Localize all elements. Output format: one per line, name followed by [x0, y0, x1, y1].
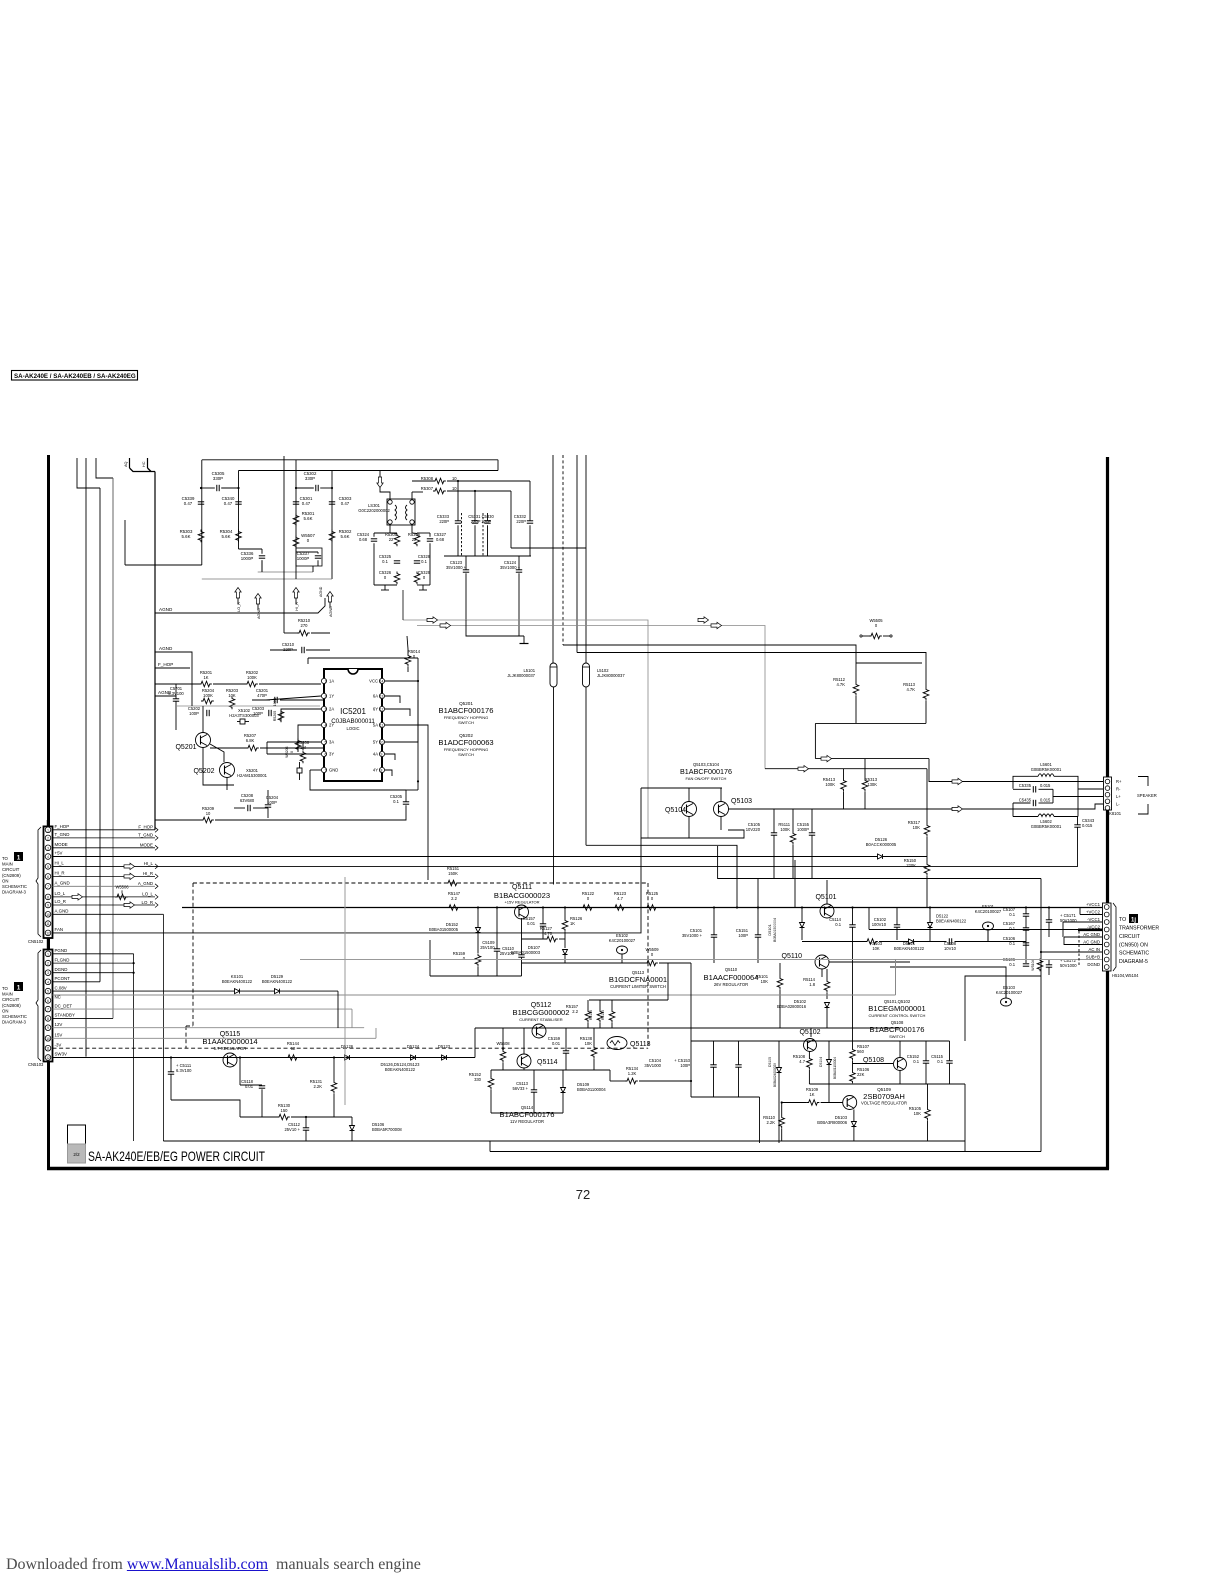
svg-text:LO_L: LO_L	[55, 891, 66, 896]
wire bottom rail C	[964, 1141, 966, 1152]
svg-text:JLJK80000037: JLJK80000037	[597, 673, 625, 678]
svg-text:IC5201: IC5201	[340, 707, 366, 716]
svg-text:5Y: 5Y	[373, 740, 378, 745]
svg-text:6A: 6A	[373, 694, 378, 699]
svg-text:1.8: 1.8	[809, 982, 815, 987]
svg-text:G0BBR5K00001: G0BBR5K00001	[1031, 824, 1062, 829]
svg-text:1: 1	[17, 985, 21, 992]
svg-text:220P: 220P	[283, 647, 293, 652]
svg-text:4.7: 4.7	[799, 1059, 805, 1064]
svg-text:0.68: 0.68	[436, 537, 445, 542]
svg-text:TO: TO	[2, 986, 9, 991]
wire x1041 long vertical	[1040, 879, 1042, 1152]
svg-text:10K: 10K	[914, 1111, 922, 1116]
connector CN5102 pin 6 HI_R	[45, 874, 51, 880]
svg-text:22: 22	[389, 537, 394, 542]
svg-text:PGND: PGND	[55, 948, 68, 953]
svg-text:2Y: 2Y	[329, 723, 334, 728]
net flag HI_R	[293, 588, 299, 599]
svg-text:HI_L: HI_L	[55, 861, 65, 866]
svg-text:SWITCH: SWITCH	[458, 752, 474, 757]
ic pin 6 3Y	[321, 751, 326, 756]
connector CN5103 pin 5 C.08V	[45, 988, 51, 994]
svg-text:12: 12	[46, 931, 50, 935]
svg-text:FAN ON/OFF SWITCH: FAN ON/OFF SWITCH	[686, 776, 727, 781]
svg-text:B1ABCF000176: B1ABCF000176	[500, 1110, 555, 1119]
wire bottom rail D	[490, 1151, 1041, 1153]
svg-text:130K: 130K	[867, 782, 877, 787]
svg-text:Q5101: Q5101	[815, 894, 836, 901]
net arrow LO_R	[124, 902, 135, 908]
connector CN5102 pin 8 LO_L	[45, 894, 51, 900]
ic pin 8 4Y	[379, 767, 384, 772]
svg-text:150K: 150K	[448, 871, 458, 876]
wire conn cap branch	[1025, 908, 1027, 914]
svg-text:100P: 100P	[189, 711, 199, 716]
svg-text:-VCC1: -VCC1	[1087, 917, 1101, 922]
wire dashed box corner	[186, 1025, 193, 1027]
svg-text:5.7 REGULATOR: 5.7 REGULATOR	[214, 1046, 247, 1051]
svg-text:25V100: 25V100	[480, 945, 495, 950]
svg-text:3A: 3A	[329, 740, 334, 745]
svg-text:B1ABCF000176: B1ABCF000176	[870, 1025, 925, 1034]
left bus wire 4	[96, 458, 113, 478]
svg-text:1: 1	[47, 828, 49, 832]
ic pin 1 1A	[321, 678, 326, 683]
wire fltr gnd left	[374, 584, 397, 586]
wire bottom rail A	[163, 1140, 965, 1142]
wire acgnd dashed drop	[1078, 931, 1080, 966]
wire row FAN	[53, 838, 642, 933]
svg-text:F_HOP: F_HOP	[138, 825, 153, 830]
connector CN5102 pin 7 A_GND	[45, 884, 51, 890]
svg-text:10: 10	[206, 811, 211, 816]
svg-text:100P: 100P	[267, 800, 277, 805]
net arrow speaker L	[952, 806, 963, 812]
transistor Q5115	[223, 1053, 237, 1067]
svg-text:3Y: 3Y	[329, 752, 334, 757]
wire fan bottom rail	[718, 846, 1041, 879]
net flag down into LS301	[377, 477, 383, 488]
svg-text:50V1000: 50V1000	[1060, 963, 1077, 968]
ic pin 5 3A	[321, 739, 326, 744]
svg-text:SUB+B: SUB+B	[1086, 955, 1100, 960]
svg-text:JK8101: JK8101	[1107, 811, 1122, 816]
svg-text:10V220: 10V220	[746, 827, 761, 832]
svg-text:1Y: 1Y	[329, 694, 334, 699]
svg-text:Q5113: Q5113	[630, 1041, 651, 1048]
svg-text:CIRCUIT: CIRCUIT	[2, 997, 20, 1002]
svg-text:B0EAKN400122: B0EAKN400122	[385, 1067, 416, 1072]
net arrow mid1a	[427, 617, 438, 623]
wire R- pin link	[1078, 788, 1103, 790]
svg-text:11: 11	[46, 1047, 50, 1051]
svg-text:GND: GND	[329, 768, 338, 773]
svg-text:DIAGRAM-3: DIAGRAM-3	[2, 890, 26, 895]
svg-text:100K: 100K	[780, 827, 790, 832]
svg-text:AC GND: AC GND	[1083, 932, 1100, 937]
svg-text:7: 7	[47, 885, 49, 889]
wire dashed bank 2	[482, 513, 484, 556]
svg-text:D5101: D5101	[767, 924, 772, 935]
svg-text:B1ABCF000176: B1ABCF000176	[439, 706, 494, 715]
svg-text:Q5108: Q5108	[863, 1057, 884, 1064]
svg-text:1: 1	[325, 680, 327, 684]
svg-text:H5104,W5104: H5104,W5104	[1112, 973, 1139, 978]
svg-text:0.015: 0.015	[1040, 783, 1051, 788]
svg-text:3: 3	[325, 708, 327, 712]
wire x691 vertical	[690, 963, 692, 1097]
svg-text:B0BA01100004: B0BA01100004	[577, 1087, 606, 1092]
svg-text:VCC: VCC	[369, 679, 378, 684]
svg-text:CURRENT STABILISER: CURRENT STABILISER	[519, 1017, 563, 1022]
connector JK8101 speaker	[1104, 777, 1112, 810]
wire row HI_R	[53, 875, 156, 877]
net arrow speaker R	[952, 778, 963, 784]
svg-text:B0EAKN400122: B0EAKN400122	[222, 979, 253, 984]
svg-text:12: 12	[46, 1056, 50, 1060]
ic pin 2 1Y	[321, 693, 326, 698]
wire gray 995 extension to sub+b	[53, 994, 896, 996]
resistor bank R5136 R5135	[585, 1010, 591, 1023]
svg-text:HI_R: HI_R	[143, 871, 153, 876]
transistor Q5113 oval	[607, 1037, 627, 1050]
svg-text:SWITCH: SWITCH	[458, 720, 474, 725]
wire join y1084	[809, 1083, 965, 1085]
wire speaker feed L	[865, 804, 1103, 809]
wire ic right pins	[385, 680, 418, 682]
svg-text:1j: 1j	[1131, 918, 1136, 924]
svg-text:2.2: 2.2	[572, 1009, 578, 1014]
svg-text:7: 7	[47, 1008, 49, 1012]
wire ic loop box	[307, 658, 309, 664]
svg-text:0.01: 0.01	[527, 921, 536, 926]
svg-text:CN5103: CN5103	[28, 1062, 44, 1067]
inductor L5602 G0BBR5K00001	[1013, 816, 1038, 818]
wire -vcc1 row	[1063, 921, 1102, 923]
svg-text:B0EAKN400122: B0EAKN400122	[262, 979, 293, 984]
svg-text:B0BA02800016: B0BA02800016	[777, 1004, 807, 1009]
wire q5108 base link	[853, 1063, 894, 1065]
svg-text:0.1: 0.1	[835, 922, 841, 927]
svg-text:1000P: 1000P	[241, 556, 254, 561]
svg-text:100K: 100K	[247, 675, 257, 680]
svg-text:4.7K: 4.7K	[906, 687, 915, 692]
wire q5114 bottom	[491, 1069, 610, 1071]
svg-text:4Y: 4Y	[373, 768, 378, 773]
svg-text:220K: 220K	[906, 863, 916, 868]
connector CN5103 body	[44, 950, 53, 1062]
connector CN5102 pin 11	[45, 921, 51, 927]
wire AGND rail y613	[155, 598, 325, 613]
wire row STANDBY	[53, 1017, 114, 1019]
svg-text:0.1: 0.1	[1009, 941, 1015, 946]
svg-text:470P: 470P	[257, 693, 267, 698]
wire q5201 mesh	[202, 706, 204, 732]
svg-text:LO_R: LO_R	[55, 899, 66, 904]
wire thick bus x155	[154, 472, 156, 830]
svg-text:SA-AK240E/EB/EG POWER CIRCUIT: SA-AK240E/EB/EG POWER CIRCUIT	[88, 1148, 265, 1164]
wire top rail A	[202, 459, 498, 461]
wire branch HI_R	[295, 460, 297, 571]
svg-text:SCHEMATIC: SCHEMATIC	[1119, 951, 1149, 957]
svg-text:4: 4	[47, 980, 49, 984]
svg-text:CURRENT CONTROL SWITCH: CURRENT CONTROL SWITCH	[869, 1013, 926, 1018]
wire row T_GND	[53, 837, 156, 839]
svg-text:(CN2808): (CN2808)	[2, 1003, 21, 1008]
svg-text:0.1: 0.1	[1009, 926, 1015, 931]
wire fan rail 2	[815, 758, 929, 760]
svg-text:B1ADCF000063: B1ADCF000063	[438, 738, 493, 747]
ic pin 13 6A	[379, 693, 384, 698]
svg-text:DGND: DGND	[1087, 962, 1100, 967]
svg-text:TO: TO	[1119, 917, 1126, 923]
svg-text:13: 13	[380, 695, 384, 699]
bracket speaker bottom	[1138, 804, 1148, 814]
svg-text:10: 10	[452, 476, 457, 481]
net arrow HI_L	[124, 863, 135, 869]
left bus wire 2	[85, 458, 87, 1057]
wire L5102 bottom jog	[586, 845, 737, 878]
svg-text:330P: 330P	[213, 476, 223, 481]
svg-text:CURRENT LIMITER SWITCH: CURRENT LIMITER SWITCH	[610, 984, 666, 989]
wire vcc bus x418	[417, 658, 419, 790]
bus wire center 1	[552, 455, 554, 663]
svg-text:G0C2202000002: G0C2202000002	[358, 508, 390, 513]
svg-text:10K: 10K	[585, 1041, 593, 1046]
svg-text:1: 1	[47, 952, 49, 956]
svg-text:AGND: AGND	[319, 586, 323, 597]
svg-text:10K: 10K	[872, 946, 880, 951]
svg-text:5: 5	[325, 741, 327, 745]
svg-text:6.3V100: 6.3V100	[176, 1068, 192, 1073]
wire main rail +15V y907	[182, 907, 1102, 909]
wire row FLGND	[53, 962, 134, 964]
connector CN5102 pin 3 MODE	[45, 845, 51, 851]
svg-text:1000P: 1000P	[297, 556, 310, 561]
svg-text:2.2: 2.2	[451, 896, 457, 901]
svg-text:100K: 100K	[273, 697, 277, 706]
svg-text:AGND: AGND	[159, 607, 173, 612]
svg-text:0.47: 0.47	[341, 501, 350, 506]
svg-text:Q5102: Q5102	[799, 1029, 820, 1036]
svg-text:10: 10	[46, 1037, 50, 1041]
svg-text:330P: 330P	[305, 476, 315, 481]
svg-text:0.47: 0.47	[184, 501, 193, 506]
net arrow fan rail2	[821, 755, 832, 761]
wire fan collector loop	[641, 787, 722, 789]
frame right border	[1106, 457, 1109, 1169]
svg-text:0.68: 0.68	[359, 537, 368, 542]
svg-text:0.47: 0.47	[224, 501, 233, 506]
svg-text:H2AM15300001: H2AM15300001	[237, 773, 268, 778]
svg-text:MAIN: MAIN	[2, 862, 13, 867]
svg-text:T_GND: T_GND	[55, 832, 70, 837]
wire row +5V long	[53, 856, 878, 858]
svg-text:R5308: R5308	[421, 476, 434, 481]
connector CN5103 pin 8 STANDBY	[45, 1016, 51, 1022]
svg-text:-3V: -3V	[55, 1042, 62, 1047]
svg-text:10: 10	[46, 913, 50, 917]
svg-text:Q5103: Q5103	[731, 798, 752, 805]
connector pin +VCC1	[1104, 905, 1109, 910]
svg-text:6: 6	[325, 753, 327, 757]
wire row F_HOP	[53, 829, 156, 831]
ic IC5201 C0JBAB000011 body	[324, 669, 382, 781]
svg-text:SWITCH: SWITCH	[889, 1034, 905, 1039]
svg-text:2: 2	[325, 695, 327, 699]
wire gray rail mid1	[403, 620, 648, 838]
transistor Q5114	[517, 1054, 531, 1068]
connector CN5103 pin 7 DC_DET	[45, 1006, 51, 1012]
svg-text:K4C20100027: K4C20100027	[975, 909, 1002, 914]
svg-text:0.1: 0.1	[1009, 962, 1015, 967]
svg-text:(CN2809): (CN2809)	[2, 873, 21, 878]
svg-text:+VCC1: +VCC1	[1086, 902, 1101, 907]
ic pin 11 5A	[379, 722, 384, 727]
wire row A_GND	[53, 885, 156, 887]
svg-text:B1GDCFNA0001: B1GDCFNA0001	[609, 975, 667, 984]
svg-text:0.1: 0.1	[421, 559, 427, 564]
svg-text:LO_L: LO_L	[142, 892, 153, 897]
svg-text:L-: L-	[1116, 802, 1120, 807]
net arrow mid2	[711, 622, 722, 628]
svg-text:K4C20100027: K4C20100027	[609, 938, 636, 943]
svg-text:SW3V: SW3V	[55, 1052, 68, 1057]
svg-text:8: 8	[381, 769, 383, 773]
bus wire center dashed	[562, 455, 564, 645]
model label box SA-AK240E	[12, 371, 138, 381]
connector CN5102 pin 12 FAN	[45, 930, 51, 936]
wire limiter bottom rail	[430, 975, 522, 977]
wire branch 2	[238, 471, 240, 550]
svg-text:TO: TO	[2, 856, 9, 861]
svg-text:LOGIC: LOGIC	[346, 726, 359, 731]
svg-text:10K: 10K	[761, 979, 769, 984]
connector CN transformer body	[1103, 903, 1112, 971]
wire row HI_L long	[53, 865, 1079, 867]
svg-text:R5205: R5205	[273, 711, 277, 722]
svg-text:35V1000: 35V1000	[644, 1063, 661, 1068]
svg-text:0.1: 0.1	[393, 799, 399, 804]
svg-text:8: 8	[47, 895, 49, 899]
svg-text:0.015: 0.015	[1082, 823, 1093, 828]
svg-text:FLGND: FLGND	[55, 957, 70, 962]
svg-text:DGND: DGND	[55, 967, 68, 972]
wire top rail AB joint	[497, 460, 499, 471]
svg-text:35V1000 +: 35V1000 +	[500, 565, 521, 570]
svg-text:100P: 100P	[738, 933, 748, 938]
svg-text:C5435: C5435	[1019, 798, 1032, 803]
wire L+ pin link	[1053, 796, 1103, 798]
ic pin 7 GND	[321, 767, 326, 772]
connector CN5102 body	[44, 826, 53, 938]
svg-text:63V680: 63V680	[240, 798, 255, 803]
svg-text:D5104: D5104	[819, 1057, 823, 1067]
svg-text:B0BA01500004: B0BA01500004	[773, 918, 777, 942]
svg-text:R5135: R5135	[601, 1010, 605, 1020]
svg-text:C0JBAB000011: C0JBAB000011	[331, 718, 375, 725]
svg-text:10: 10	[380, 741, 384, 745]
wire fltr gnd right	[417, 584, 430, 586]
wire acin	[1041, 951, 1102, 953]
svg-text:330: 330	[474, 1077, 482, 1082]
svg-text:150: 150	[281, 1108, 289, 1113]
svg-text:5.6K: 5.6K	[182, 534, 191, 539]
svg-text:2/2: 2/2	[73, 1152, 80, 1157]
wire x965 vertical	[964, 1084, 966, 1141]
wire black rail mid4	[577, 653, 926, 669]
svg-text:B0BA01500003: B0BA01500003	[511, 950, 541, 955]
svg-text:+5V: +5V	[55, 851, 63, 856]
svg-text:7: 7	[325, 769, 327, 773]
svg-text:F_HOP: F_HOP	[55, 824, 70, 829]
svg-text:0.1: 0.1	[1009, 912, 1015, 917]
svg-text:10K: 10K	[913, 825, 921, 830]
connector pin AC IN	[1104, 950, 1109, 955]
svg-text:6.8K: 6.8K	[246, 738, 255, 743]
svg-text:4.70: 4.70	[544, 931, 553, 936]
svg-text:LO_R: LO_R	[142, 900, 153, 905]
svg-text:SCHEMATIC: SCHEMATIC	[2, 884, 27, 889]
wire row A.GND drop	[53, 913, 164, 915]
svg-text:5A: 5A	[373, 723, 378, 728]
svg-text:9: 9	[47, 904, 49, 908]
wire -vcc2 stub	[1078, 928, 1102, 931]
svg-text:D5123: D5123	[438, 1044, 451, 1049]
svg-text:G0BBR5K00001: G0BBR5K00001	[1031, 767, 1062, 772]
svg-text:0.1: 0.1	[382, 559, 388, 564]
svg-text:-VCC2: -VCC2	[1087, 925, 1101, 930]
transistor Q5109	[843, 1096, 857, 1110]
wire ic bottom rail	[300, 815, 406, 820]
svg-text:4A: 4A	[373, 752, 378, 757]
svg-text:ON: ON	[2, 878, 8, 883]
svg-text:35V1000 +: 35V1000 +	[446, 565, 467, 570]
svg-text:HC: HC	[142, 461, 146, 467]
brace CN5103	[36, 950, 41, 1061]
wire limiter rail y963	[522, 962, 646, 964]
svg-text:R+: R+	[1116, 779, 1122, 784]
svg-text:+VCC2: +VCC2	[1086, 910, 1101, 915]
transistor Q5111	[515, 905, 529, 919]
svg-text:4.7: 4.7	[617, 896, 623, 901]
wire speaker feed R	[929, 759, 1103, 782]
svg-text:10: 10	[452, 486, 457, 491]
svg-text:0.015: 0.015	[1040, 798, 1051, 803]
wire q5115 rail	[53, 1057, 476, 1059]
wire gray bus x345	[344, 877, 346, 1105]
svg-text:R5307: R5307	[421, 486, 434, 491]
transistor Q5112	[532, 1024, 546, 1038]
wire dashed box right edge	[647, 883, 649, 1048]
left bus wire 1	[77, 458, 100, 488]
svg-text:B1AAKD000014: B1AAKD000014	[202, 1037, 257, 1046]
svg-text:A_GND: A_GND	[55, 881, 70, 886]
connector pin -VCC2	[1104, 927, 1109, 932]
svg-text:SCHEMATIC: SCHEMATIC	[2, 1014, 27, 1019]
svg-text:560: 560	[857, 1049, 865, 1054]
svg-text:1.2K: 1.2K	[628, 1071, 637, 1076]
bus wire center 2	[576, 455, 578, 653]
wire -vcc2 feed	[869, 929, 1102, 931]
wire long vertical x284	[283, 456, 285, 633]
ic pin 4 2Y	[321, 722, 326, 727]
wire hop row	[155, 683, 199, 685]
svg-text:0.47: 0.47	[302, 501, 311, 506]
wire c5123 ground U	[466, 620, 524, 636]
svg-text:R-: R-	[1116, 787, 1121, 792]
